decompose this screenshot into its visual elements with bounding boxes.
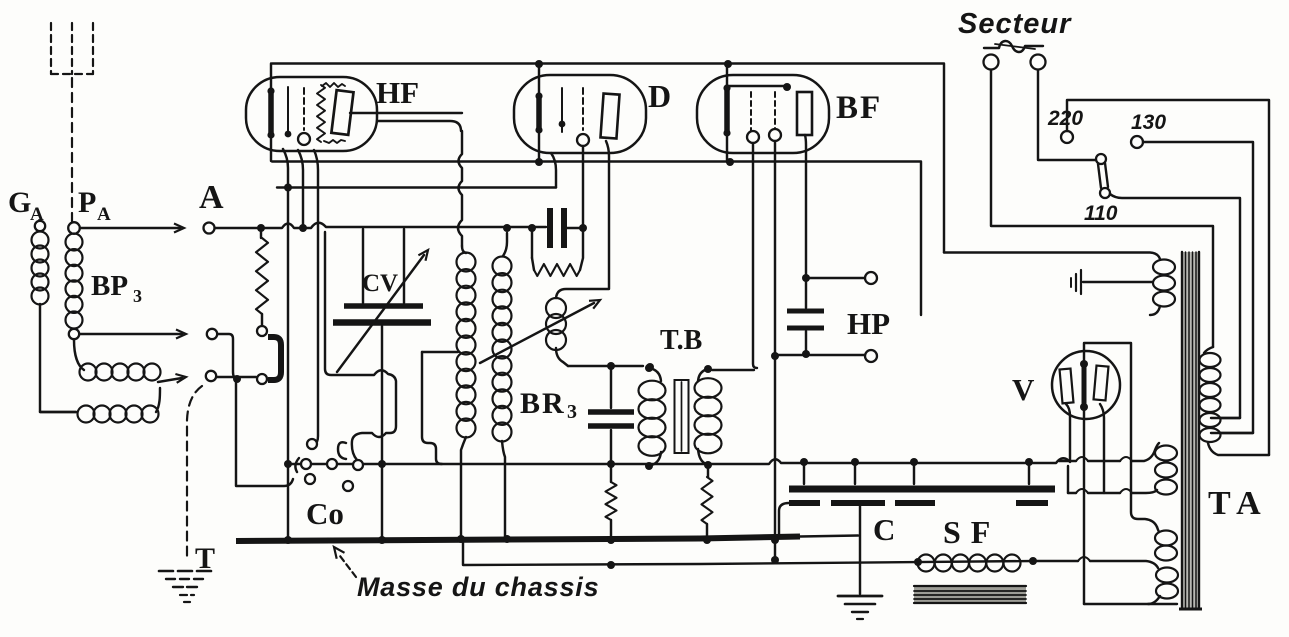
condenser grid D [550,208,583,248]
coil reaction [546,298,568,366]
svg-text:TA: TA [1208,485,1269,522]
svg-text:130: 130 [1131,111,1166,134]
label masse du chassis [357,572,599,602]
wire HF plate out [350,113,462,131]
winding fil 3 [1148,568,1178,605]
transformer TA primary top rail [944,253,1160,260]
label C [873,512,895,547]
condenser CV top plate [344,229,423,306]
label TB [660,325,702,356]
label GA [8,186,44,225]
tube D grid wires [559,88,583,132]
terminal mains left [984,55,999,70]
wire selector step 2 [422,352,458,464]
svg-text:3: 3 [133,286,142,306]
svg-text:220: 220 [1047,107,1083,130]
wire HP bottom [773,354,864,356]
wire V filament down [1083,410,1085,604]
svg-text:A: A [97,204,111,225]
coil GA primary [32,232,77,413]
resistor grid leak [532,231,583,276]
wire BF plate down [805,135,806,278]
choke SF core [914,585,1026,604]
wire HF anode down [458,131,462,246]
primary shield cap [1071,270,1152,294]
ground T [159,571,215,602]
resistor antenna series [256,224,268,325]
wire bottom rail [1084,603,1177,605]
svg-text:CV: CV [362,270,398,297]
tube HF filament zigzag [317,83,345,143]
wire BF grid down [753,143,757,368]
svg-text:D: D [648,78,671,114]
transformer TA core [1179,252,1202,609]
wire 130 [1143,142,1253,433]
arrow reaction [480,300,600,363]
wire V top [1084,343,1157,527]
wire V left plate down [1066,404,1070,461]
wire TB to BF grid [712,369,754,371]
terminal R bottom [257,326,267,336]
tube BF grid circles [747,129,781,143]
label 130 [1131,111,1166,134]
transformer TA mains winding [1200,347,1270,455]
label SF [943,514,1000,550]
wire BF cathode down [771,141,779,564]
masse arrow [334,547,356,577]
tube D envelope [514,75,646,153]
tube V plates [1060,366,1109,404]
terminal tap 1 [69,329,79,339]
wire HT distribution [288,458,1070,464]
terminal bracket bottom [257,374,267,384]
label Secteur [958,8,1072,40]
svg-text:110: 110 [1084,202,1118,225]
winding fil 1 lower rail [1068,466,1157,493]
tube BF anode plate [797,92,812,135]
terminal 130 [1131,136,1143,148]
wire cathode rail [272,162,921,316]
label Co [306,496,344,531]
terminal HP top [865,272,877,284]
condenser CV bottom plate [333,323,431,540]
coil BR3 A [457,246,476,539]
tube HF grid pin circle [298,133,310,145]
wire mains right to link [1038,70,1097,160]
wire D plate down [556,141,609,298]
mains switch squiggle [984,41,1043,52]
svg-text:Masse du chassis: Masse du chassis [357,572,599,602]
tube HF envelope [246,77,377,151]
wire to earth T (dashed) [187,386,202,558]
wire top HT rail [272,64,944,253]
label T [195,542,215,575]
label 110 [1084,202,1118,225]
transformer TB core [675,380,689,453]
svg-text:BR: BR [520,387,566,420]
arrow from PA to A [80,224,184,233]
choke SF [918,555,1021,572]
tube D cathode bar [535,60,543,166]
wire node down to Co [236,381,293,486]
tube BF internal link [727,83,791,91]
terminal sel2 [206,371,216,381]
tube BF cathode bar [723,60,734,166]
wire second chassis line [463,542,1078,569]
svg-text:HF: HF [376,75,419,110]
wire reaction to TB [568,362,654,371]
label BP3 [91,270,142,306]
tube V filament bar [1080,360,1088,411]
label A [199,179,224,216]
wire V right plate down [1100,404,1104,493]
label HF [376,75,419,110]
svg-text:A: A [199,179,224,216]
condenser across TB [588,366,634,468]
coil BP3 secondary [66,234,83,329]
wire sel2 to node [217,375,256,383]
label D [648,78,671,114]
label HP [847,306,890,341]
svg-text:BP: BP [91,270,128,302]
label CV [362,270,398,297]
winding fil 3 rail [1078,557,1158,568]
svg-text:SF: SF [943,514,1000,550]
commutator Co contacts [295,439,363,491]
label BF [836,90,882,126]
label TA [1208,485,1269,522]
wire HF pin2 down [298,150,303,228]
terminal A [204,223,215,234]
label V [1012,372,1035,407]
tube HF grid wires [285,87,304,137]
tube BF envelope [697,75,829,153]
svg-text:HP: HP [847,306,890,341]
svg-text:Co: Co [306,496,344,531]
terminal 220 [1061,131,1073,143]
tube HF anode plate [331,90,353,135]
chassis bus (masse) [236,535,858,544]
condenser HP [787,278,824,358]
antenna (dashed) [51,23,93,221]
wire D pin1 [551,153,556,188]
label BR3 [520,387,577,423]
transformer TA primary turns [1150,260,1175,316]
resistor bias 1 [606,464,617,539]
terminal PA [68,222,80,234]
winding fil 1 [1059,443,1177,495]
ground under C [838,506,882,619]
svg-text:T.B: T.B [660,325,702,356]
tube V envelope [1052,351,1120,419]
wire HF pin3 down [314,150,318,445]
tube D grid circle [577,134,589,146]
arrow tap2 [158,374,186,383]
svg-text:G: G [8,186,31,219]
svg-text:P: P [78,186,96,219]
wire mains left down [991,70,1213,347]
svg-text:C: C [873,512,895,547]
wire grid rail [277,186,556,188]
terminal mains right [1031,55,1046,70]
resistor bias 2 [702,465,713,539]
wire sel1 down [218,334,237,379]
wire selector step 1 [325,232,396,460]
svg-text:3: 3 [567,401,577,423]
coil tap lower [40,388,160,423]
wire HP top [802,274,864,282]
terminal sel1 [207,329,217,339]
winding fil 2 [1155,527,1177,561]
wire 110 [1110,194,1240,418]
condenser bank sections [779,503,1048,537]
tube BF grids dashed [751,92,775,133]
tube D anode plate [600,93,619,138]
arrow tap1 [80,330,186,339]
tube HF cathode bar [267,64,274,162]
wire HF pin1 down [283,149,292,539]
svg-text:BF: BF [836,90,882,126]
coil tap upper [74,340,161,381]
terminal HP bottom [865,350,877,362]
svg-text:Secteur: Secteur [958,8,1072,40]
wire 220 [1067,100,1269,455]
switch bracket Co [268,337,281,380]
label PA [78,186,111,225]
coil BR3 B [493,233,512,539]
condenser CV arrow [337,250,428,372]
wire D grid down [579,146,587,232]
condenser bank common plate [789,458,1055,489]
terminal GA [35,221,45,231]
transformer TB secondary [695,365,722,469]
wire antenna line [215,223,546,232]
transformer TB primary [639,364,666,470]
label 220 [1047,107,1083,130]
voltage link [1096,154,1110,198]
svg-text:V: V [1012,372,1035,407]
